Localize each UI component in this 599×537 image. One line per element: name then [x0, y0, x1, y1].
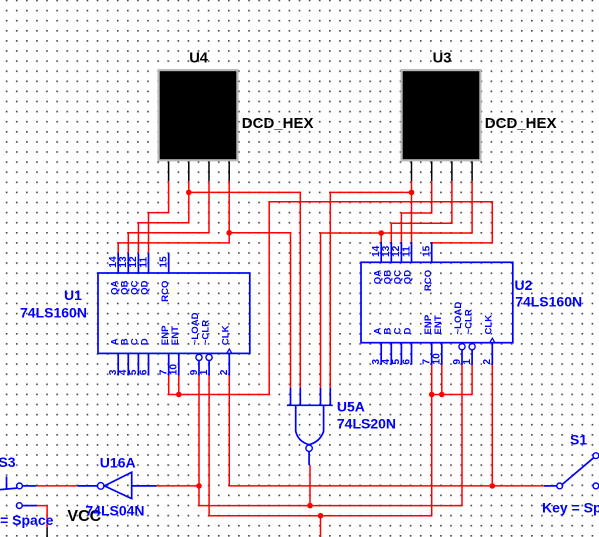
svg-text:ENT: ENT	[433, 315, 444, 334]
svg-text:DCD_HEX: DCD_HEX	[242, 115, 314, 132]
svg-text:15: 15	[422, 245, 433, 257]
svg-text:U5A: U5A	[337, 398, 365, 414]
svg-text:10: 10	[169, 364, 180, 376]
svg-text:Key = Space: Key = Space	[542, 499, 599, 515]
svg-text:QD: QD	[140, 280, 151, 294]
svg-text:U16A: U16A	[100, 455, 136, 471]
svg-text:74LS160N: 74LS160N	[20, 304, 87, 320]
svg-text:U2: U2	[515, 277, 533, 293]
svg-text:CLK: CLK	[221, 325, 232, 345]
svg-text:15: 15	[159, 256, 170, 268]
svg-text:S3: S3	[0, 454, 16, 470]
svg-text:DCD_HEX: DCD_HEX	[485, 115, 557, 132]
svg-text:6: 6	[138, 369, 149, 375]
svg-text:D: D	[403, 328, 414, 335]
svg-text:1: 1	[462, 359, 473, 365]
svg-text:74LS20N: 74LS20N	[337, 415, 396, 431]
svg-text:74LS160N: 74LS160N	[515, 293, 582, 309]
svg-text:10: 10	[432, 353, 443, 365]
svg-text:RCO: RCO	[160, 280, 171, 302]
svg-text:2: 2	[219, 369, 230, 375]
svg-text:U3: U3	[433, 50, 452, 66]
svg-text:D: D	[140, 338, 151, 345]
svg-text:CLK: CLK	[484, 315, 495, 335]
svg-text:U1: U1	[64, 287, 82, 303]
svg-text:QD: QD	[403, 270, 414, 284]
svg-text:6: 6	[401, 359, 412, 365]
svg-text:~CLR: ~CLR	[200, 320, 211, 345]
svg-text:Key = Space: Key = Space	[0, 512, 54, 528]
svg-text:2: 2	[482, 359, 493, 365]
svg-text:11: 11	[401, 246, 412, 257]
svg-text:RCO: RCO	[423, 269, 434, 291]
svg-text:~CLR: ~CLR	[463, 309, 474, 334]
svg-text:1: 1	[199, 369, 210, 375]
svg-text:ENT: ENT	[170, 326, 181, 345]
svg-text:U4: U4	[189, 50, 209, 66]
svg-text:11: 11	[138, 257, 149, 268]
svg-text:74LS04N: 74LS04N	[85, 502, 144, 518]
svg-text:S1: S1	[570, 432, 587, 448]
